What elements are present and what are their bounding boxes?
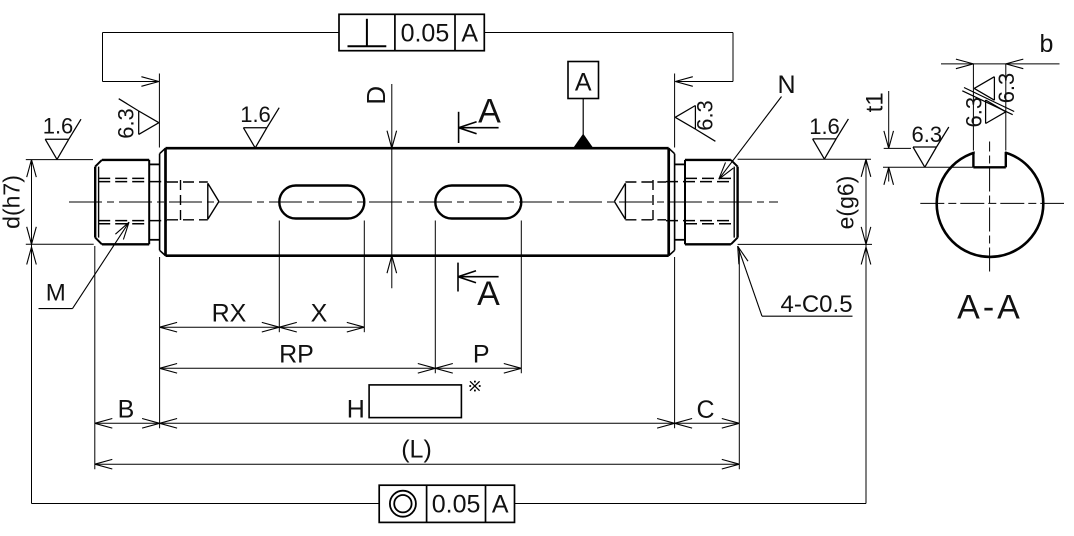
label 4-C0.5 leader bbox=[738, 246, 853, 318]
datum A box bbox=[568, 62, 599, 99]
left shoulder groove wall bbox=[159, 154, 161, 251]
concentricity tolerance 0.05 bbox=[432, 491, 481, 519]
right thread outline bbox=[685, 160, 738, 244]
section keyway slot bbox=[973, 152, 1005, 167]
svg-text:6.3: 6.3 bbox=[114, 108, 139, 139]
svg-text:A-A: A-A bbox=[957, 289, 1023, 327]
dimension e(g6) line bbox=[861, 159, 871, 503]
roughness 6.3 at left shoulder bbox=[114, 99, 159, 139]
svg-text:RP: RP bbox=[279, 341, 314, 369]
roughness 1.6 on e(g6) bbox=[809, 114, 848, 159]
dimension H bbox=[160, 396, 675, 428]
shaft main body outline bbox=[166, 148, 669, 256]
concentricity symbol bbox=[390, 491, 416, 517]
keyway extension lines bbox=[279, 221, 521, 374]
right shoulder upper extension line bbox=[674, 74, 676, 148]
reference asterisk mark bbox=[469, 381, 480, 392]
datum A leader and triangle bbox=[574, 99, 593, 148]
svg-text:P: P bbox=[473, 341, 490, 369]
right hidden lines bbox=[666, 182, 735, 221]
svg-text:1.6: 1.6 bbox=[809, 114, 840, 139]
svg-text:A: A bbox=[477, 275, 500, 313]
svg-text:A: A bbox=[492, 491, 509, 519]
label d(h7) bbox=[0, 175, 25, 229]
svg-text:d(h7): d(h7) bbox=[0, 175, 25, 229]
right keyway slot bbox=[435, 186, 521, 219]
svg-text:H: H bbox=[347, 396, 365, 424]
right thread root lines bbox=[685, 178, 735, 223]
perpendicularity symbol bbox=[348, 19, 387, 47]
concentricity datum A bbox=[492, 491, 509, 519]
left hidden lines bbox=[98, 182, 167, 221]
svg-text:M: M bbox=[46, 280, 66, 307]
svg-text:C: C bbox=[696, 396, 714, 424]
dimension e(g6) extension lines bbox=[738, 159, 872, 244]
right center hole bbox=[614, 180, 666, 222]
svg-text:RX: RX bbox=[212, 300, 247, 328]
left thread chamfer line bbox=[98, 167, 100, 238]
right thread face extension line bbox=[738, 250, 740, 469]
dimension X bbox=[279, 300, 364, 333]
dimension RP bbox=[160, 341, 436, 374]
svg-text:6.3: 6.3 bbox=[962, 97, 987, 128]
roughness 6.3 at keyway sides bbox=[962, 73, 1020, 128]
left shoulder extension line bbox=[159, 257, 161, 428]
dimension B bbox=[95, 396, 160, 429]
svg-text:4-C0.5: 4-C0.5 bbox=[781, 291, 853, 318]
perpendicularity leader left bbox=[103, 33, 340, 87]
left neck bbox=[149, 164, 159, 239]
roughness 6.3 at right shoulder bbox=[675, 100, 717, 141]
svg-text:6.3: 6.3 bbox=[912, 122, 943, 147]
left shoulder upper extension line bbox=[158, 74, 160, 148]
svg-text:(L): (L) bbox=[401, 436, 432, 464]
perpendicularity feature control frame bbox=[339, 14, 484, 50]
left thread face extension line bbox=[94, 246, 96, 469]
left thread outline bbox=[95, 160, 149, 244]
roughness 1.6 on d(h7) bbox=[43, 114, 81, 160]
roughness 1.6 on shaft body bbox=[240, 102, 279, 148]
dimension (L) bbox=[95, 436, 740, 470]
concentricity leader right bbox=[515, 503, 867, 505]
dimension b line bbox=[941, 30, 1060, 69]
svg-text:t1: t1 bbox=[862, 92, 889, 112]
right body chamfer bbox=[669, 148, 675, 256]
section label A-A bbox=[957, 289, 1023, 327]
perpendicularity leader right bbox=[484, 33, 733, 87]
svg-text:e(g6): e(g6) bbox=[833, 176, 859, 230]
svg-text:b: b bbox=[1040, 30, 1054, 58]
roughness 6.3 at keyway bottom bbox=[912, 122, 949, 167]
dimension d(h7) line bbox=[27, 160, 37, 504]
svg-text:D: D bbox=[361, 86, 391, 105]
label e(g6) bbox=[833, 176, 859, 230]
label M leader bbox=[39, 222, 130, 308]
svg-text:X: X bbox=[311, 300, 328, 328]
dimension P bbox=[435, 341, 521, 374]
concentricity feature control frame bbox=[379, 485, 514, 522]
right shoulder extension line bbox=[674, 257, 676, 428]
label N leader bbox=[719, 71, 796, 179]
right thread chamfer line bbox=[733, 167, 735, 238]
dimension RX bbox=[160, 300, 280, 333]
left thread root lines bbox=[98, 178, 149, 223]
dimension C bbox=[675, 396, 740, 428]
right neck bbox=[675, 164, 685, 239]
svg-text:N: N bbox=[777, 71, 795, 99]
shaft centerline bbox=[69, 201, 778, 203]
section cut mark bottom bbox=[458, 263, 500, 314]
svg-text:B: B bbox=[118, 396, 135, 424]
svg-text:1.6: 1.6 bbox=[240, 102, 271, 127]
svg-text:1.6: 1.6 bbox=[43, 114, 74, 139]
dimension d(h7) extension lines bbox=[26, 160, 94, 245]
right shoulder groove wall bbox=[674, 154, 676, 251]
svg-text:0.05: 0.05 bbox=[432, 491, 481, 519]
dimension t1 bbox=[862, 91, 974, 185]
perpendicularity datum A bbox=[461, 20, 478, 48]
label D bbox=[361, 86, 391, 105]
left keyway slot bbox=[279, 186, 364, 219]
svg-text:6.3: 6.3 bbox=[693, 100, 718, 131]
concentricity leader left bbox=[32, 503, 380, 505]
dimension D line bbox=[387, 84, 397, 288]
section circle bbox=[937, 140, 1044, 257]
dimension b extension lines bbox=[973, 64, 1005, 151]
section cut mark top bbox=[459, 93, 502, 144]
H value box bbox=[369, 385, 461, 418]
svg-text:A: A bbox=[461, 20, 478, 48]
left body chamfer bbox=[160, 148, 166, 256]
perpendicularity tolerance 0.05 bbox=[401, 20, 450, 48]
left center hole bbox=[167, 180, 219, 222]
section centerlines bbox=[920, 142, 1064, 272]
svg-text:6.3: 6.3 bbox=[994, 73, 1019, 104]
svg-text:A: A bbox=[575, 69, 592, 97]
svg-text:A: A bbox=[478, 93, 501, 131]
svg-text:0.05: 0.05 bbox=[401, 20, 450, 48]
